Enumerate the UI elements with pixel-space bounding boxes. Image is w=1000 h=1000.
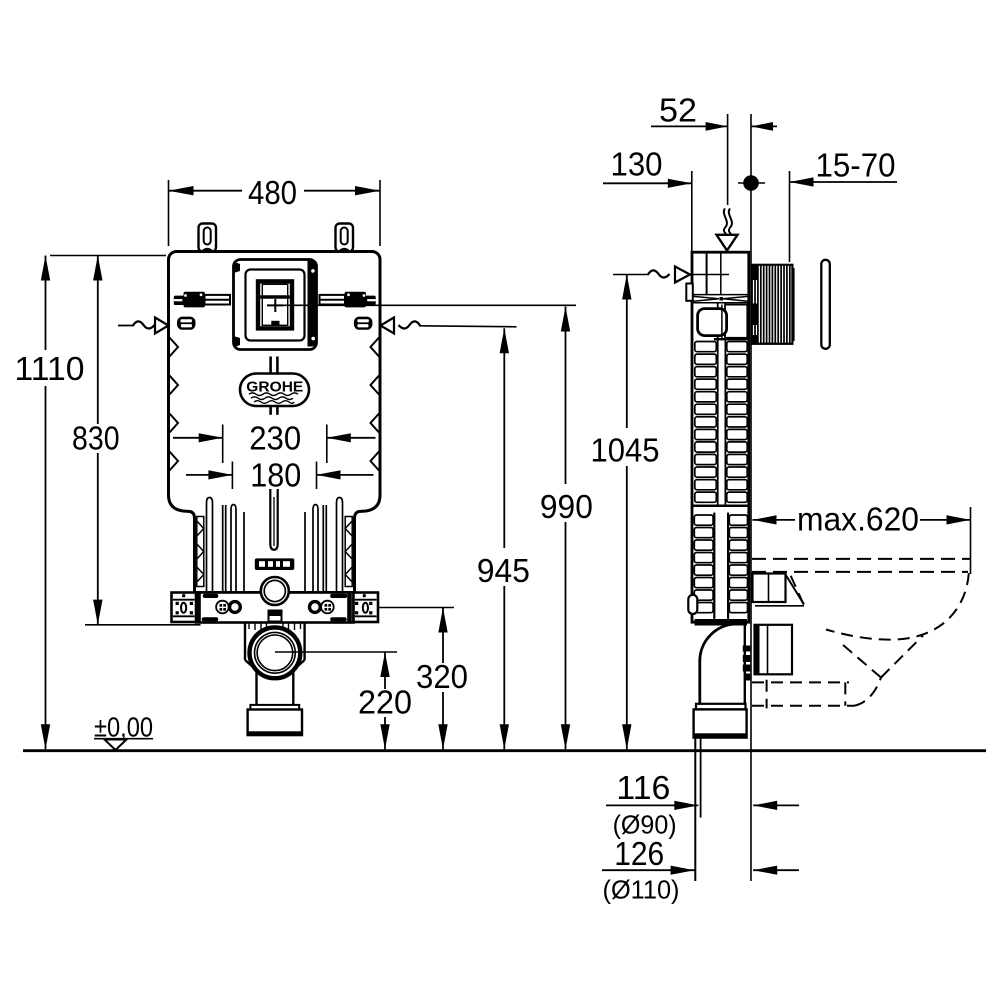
- svg-text:116: 116: [616, 769, 670, 806]
- svg-text:126: 126: [614, 835, 664, 872]
- svg-text:830: 830: [72, 420, 120, 457]
- svg-text:max.620: max.620: [797, 501, 919, 538]
- svg-text:1045: 1045: [591, 432, 660, 469]
- svg-text:945: 945: [477, 552, 530, 589]
- svg-text:52: 52: [659, 92, 697, 129]
- svg-text:230: 230: [249, 419, 301, 456]
- svg-text:130: 130: [611, 146, 663, 183]
- svg-text:180: 180: [250, 457, 301, 494]
- svg-text:(Ø110): (Ø110): [603, 875, 680, 905]
- svg-text:15-70: 15-70: [816, 147, 896, 184]
- svg-text:1110: 1110: [15, 350, 85, 387]
- svg-text:±0,00: ±0,00: [94, 712, 153, 743]
- svg-text:990: 990: [540, 488, 593, 525]
- svg-text:220: 220: [358, 684, 412, 721]
- svg-text:480: 480: [248, 174, 297, 211]
- svg-text:320: 320: [416, 658, 468, 695]
